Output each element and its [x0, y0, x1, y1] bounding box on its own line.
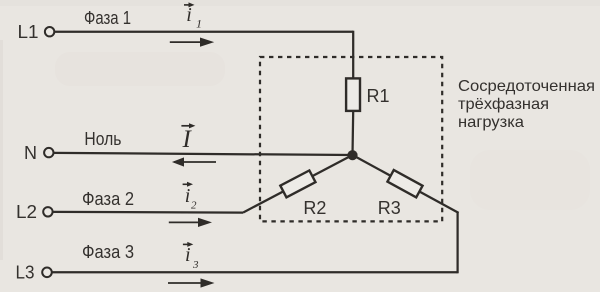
resistor R3 [387, 170, 422, 197]
current label I (vector I) [181, 123, 195, 153]
wire L2 horizontal [53, 211, 243, 214]
svg-text:L1: L1 [18, 22, 39, 42]
svg-text:R2: R2 [303, 198, 326, 218]
svg-text:Фаза 3: Фаза 3 [82, 242, 134, 262]
current label i2 (vector i with subscript 2) [183, 182, 197, 212]
current arrow i3 (direction arrow under L3 wire) [168, 278, 215, 287]
wire R1 bottom to star point [351, 111, 354, 155]
wire R3 diagonal from star point [353, 155, 459, 213]
svg-text:R1: R1 [367, 86, 390, 106]
svg-text:L3: L3 [16, 263, 35, 283]
svg-text:трёхфазная: трёхфазная [458, 96, 549, 113]
svg-text:N: N [24, 143, 37, 163]
svg-text:Фаза 1: Фаза 1 [84, 8, 131, 28]
current arrow i2 (direction arrow under L2 wire) [169, 218, 212, 227]
resistor R2 [280, 170, 315, 197]
wire L3 vertical rise [456, 212, 458, 273]
svg-text:1: 1 [196, 17, 202, 31]
svg-text:Фаза 2: Фаза 2 [82, 189, 134, 209]
wire L3 horizontal [52, 271, 457, 273]
wire L2 diagonal to star point [243, 155, 353, 213]
resistor R1 [346, 78, 360, 111]
svg-text:3: 3 [192, 259, 199, 271]
current label i1 (vector i with subscript 1) [184, 2, 202, 30]
dashed box: load boundary [260, 57, 442, 221]
svg-text:нагрузка: нагрузка [458, 114, 524, 131]
wire neutral [54, 153, 353, 155]
svg-text:R3: R3 [378, 198, 401, 218]
terminal L2 [43, 207, 52, 216]
current arrow I (left pointing under neutral wire) [172, 157, 216, 166]
svg-text:Сосредоточенная: Сосредоточенная [458, 78, 595, 95]
current label i3 (vector i with subscript 3) [183, 242, 199, 271]
svg-text:i: i [185, 244, 191, 266]
wire L1 horizontal [55, 31, 354, 33]
star point node [347, 150, 357, 160]
svg-text:i: i [186, 4, 192, 26]
current arrow i1 (direction arrow under L1 wire) [170, 38, 214, 47]
terminal L1 [45, 27, 54, 36]
load caption: Сосредоточенная трёхфазная нагрузка [458, 78, 595, 131]
svg-text:L2: L2 [16, 202, 37, 222]
svg-text:i: i [185, 185, 191, 207]
svg-text:Ноль: Ноль [84, 129, 121, 149]
terminal N [44, 148, 53, 157]
terminal L3 [42, 268, 52, 278]
svg-text:2: 2 [191, 200, 197, 212]
wire L1 vertical drop to R1 [352, 31, 354, 78]
